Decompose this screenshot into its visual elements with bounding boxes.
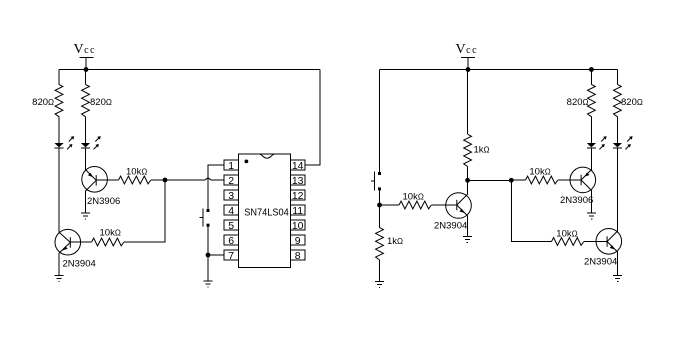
svg-text:10kΩ: 10kΩ bbox=[100, 228, 121, 239]
resistor R10 820 bbox=[588, 84, 596, 116]
resistor R8 10k bbox=[526, 176, 558, 184]
resistor R9 10k bbox=[552, 238, 584, 246]
Vcc label (left) bbox=[74, 42, 97, 57]
svg-text:10kΩ: 10kΩ bbox=[556, 229, 577, 240]
junction: switch/R6/R7 node bbox=[377, 203, 382, 208]
ground (IC switch line) bbox=[204, 281, 213, 287]
pin 5 bbox=[224, 220, 239, 232]
pin 6 bbox=[224, 235, 239, 247]
pin 1 bbox=[224, 160, 239, 172]
label R5 1k ohm bbox=[474, 145, 490, 156]
pin 7 bbox=[224, 250, 239, 262]
svg-text:1kΩ: 1kΩ bbox=[387, 236, 403, 247]
pin 11 bbox=[291, 205, 306, 217]
svg-text:820Ω: 820Ω bbox=[32, 97, 54, 108]
junction: T node bbox=[509, 178, 514, 183]
ground (Q1) bbox=[81, 213, 90, 219]
LED LED4 bbox=[613, 136, 633, 149]
wire: node to R6 bbox=[380, 204, 400, 206]
label R4 10k ohm bbox=[100, 228, 121, 239]
wire: R1 to LED1 bbox=[58, 117, 60, 143]
label R10 820 ohm bbox=[567, 97, 589, 108]
svg-text:2N3904: 2N3904 bbox=[63, 259, 96, 270]
svg-text:2N3906: 2N3906 bbox=[87, 196, 120, 207]
ground (Q5) bbox=[613, 275, 622, 281]
label R11 820 ohm bbox=[621, 97, 643, 108]
wire: R5 to Q3 collector bbox=[467, 167, 469, 195]
junction: pin 7 node bbox=[206, 253, 211, 258]
svg-text:10kΩ: 10kΩ bbox=[126, 167, 147, 178]
wire: Q5 emitter to ground bbox=[617, 252, 619, 275]
wire: R2 to LED2 bbox=[85, 117, 87, 143]
svg-text:2N3904: 2N3904 bbox=[434, 221, 467, 232]
wire: Vcc rail (right) bbox=[380, 69, 618, 71]
wire: pin 1 to switch line bbox=[208, 165, 224, 209]
label U1 SN74LS04 bbox=[244, 207, 289, 219]
label R8 10k ohm bbox=[529, 167, 550, 178]
ground (Q4) bbox=[587, 213, 596, 219]
wire: R4 to Q2 base bbox=[70, 241, 91, 243]
wire: rail corner to R11 bbox=[616, 70, 618, 85]
junction: right Vcc tap bbox=[466, 67, 471, 72]
label R6 10k ohm bbox=[403, 192, 424, 203]
transistor Q4 2N3906 bbox=[570, 167, 596, 193]
LED LED3 bbox=[587, 136, 607, 149]
label R9 10k ohm bbox=[556, 229, 577, 240]
svg-text:3: 3 bbox=[228, 190, 234, 202]
LED LED1 bbox=[54, 136, 74, 149]
wire: LED2 drop from rail bbox=[85, 70, 87, 85]
ground (R7) bbox=[375, 281, 384, 287]
svg-text:7: 7 bbox=[228, 250, 234, 262]
svg-text:9: 9 bbox=[295, 235, 301, 247]
ground (Q3) bbox=[463, 237, 472, 243]
transistor Q2 2N3904 bbox=[55, 229, 81, 255]
IC U1 body bbox=[239, 154, 291, 268]
svg-text:10kΩ: 10kΩ bbox=[403, 192, 424, 203]
svg-text:2N3904: 2N3904 bbox=[584, 257, 617, 268]
svg-text:11: 11 bbox=[292, 205, 303, 217]
svg-text:12: 12 bbox=[292, 190, 304, 202]
svg-text:1kΩ: 1kΩ bbox=[474, 145, 490, 156]
wire: LED1 to Q2 collector bbox=[58, 148, 60, 232]
wire: node to pin 7 bbox=[208, 254, 224, 256]
wire: Q2 emitter to ground bbox=[58, 253, 60, 275]
resistor R1 820 bbox=[55, 84, 63, 116]
label Q1 2N3906 bbox=[87, 196, 120, 207]
junction: rail tap for R10 bbox=[589, 67, 594, 72]
svg-text:2: 2 bbox=[228, 175, 234, 187]
pin 13 bbox=[291, 175, 306, 187]
wire: switch to node bbox=[379, 190, 381, 227]
label Q3 2N3904 bbox=[434, 221, 467, 232]
transistor Q1 2N3906 bbox=[82, 167, 108, 193]
svg-text:10kΩ: 10kΩ bbox=[529, 167, 550, 178]
svg-text:10: 10 bbox=[292, 220, 304, 232]
wire: LED2 to Q1 emitter bbox=[85, 148, 87, 170]
pin 10 bbox=[291, 220, 306, 232]
resistor R3 10k bbox=[119, 176, 151, 184]
pin 2 bbox=[224, 175, 239, 187]
resistor R7 1k bbox=[376, 228, 384, 260]
svg-text:13: 13 bbox=[292, 175, 304, 187]
svg-text:14: 14 bbox=[292, 160, 304, 172]
svg-text:820Ω: 820Ω bbox=[90, 97, 112, 108]
svg-text:8: 8 bbox=[295, 250, 301, 262]
resistor R11 820 bbox=[614, 84, 622, 116]
resistor R5 1k bbox=[464, 134, 472, 166]
wire: T node to R8 bbox=[511, 179, 525, 181]
wire: switch to pin 7 node bbox=[207, 227, 209, 281]
IC U1 notch bbox=[260, 154, 275, 158]
resistor R2 820 bbox=[82, 84, 90, 116]
wire: Vcc rail (left) bbox=[59, 69, 320, 71]
switch S2 pushbutton bbox=[371, 172, 381, 191]
wire: hop over switch line and into pin 2 bbox=[206, 178, 211, 180]
transistor Q5 2N3904 bbox=[596, 229, 622, 255]
pin 8 bbox=[291, 250, 306, 262]
pin 14 bbox=[291, 160, 306, 172]
LED LED2 bbox=[81, 136, 101, 149]
label R7 1k ohm bbox=[387, 236, 403, 247]
svg-text:2N3906: 2N3906 bbox=[560, 195, 593, 206]
label Q4 2N3906 bbox=[560, 195, 593, 206]
Vcc power symbol (left) bbox=[80, 58, 94, 70]
label Q5 2N3904 bbox=[584, 257, 617, 268]
svg-text:Vcc: Vcc bbox=[456, 42, 479, 57]
wire: Q3 emitter to ground bbox=[466, 215, 468, 236]
svg-text:1: 1 bbox=[228, 160, 234, 172]
junction: pin 2 node bbox=[163, 178, 168, 183]
wire: Q1 base lead bbox=[96, 179, 118, 181]
ground (Q2) bbox=[55, 275, 64, 281]
wire: rail to R1 bbox=[58, 70, 60, 85]
wire: node down to R4 bbox=[124, 180, 165, 242]
wire: R7 to ground bbox=[379, 260, 381, 282]
label R2 820 ohm bbox=[90, 97, 112, 108]
svg-text:820Ω: 820Ω bbox=[567, 97, 589, 108]
junction: Q3 collector node bbox=[465, 178, 470, 183]
wire: LED4 to Q5 collector bbox=[616, 148, 618, 231]
wire: rail to R5 bbox=[467, 70, 469, 135]
svg-text:4: 4 bbox=[228, 205, 234, 217]
wire: R10 to LED3 bbox=[590, 117, 592, 143]
label R3 10k ohm bbox=[126, 167, 147, 178]
svg-text:6: 6 bbox=[228, 235, 234, 247]
resistor R4 10k bbox=[92, 238, 124, 246]
wire: R8 to Q4 base bbox=[558, 179, 581, 181]
switch S1 pushbutton bbox=[200, 209, 210, 227]
svg-text:5: 5 bbox=[228, 220, 234, 232]
svg-text:820Ω: 820Ω bbox=[621, 97, 643, 108]
label Q2 2N3904 bbox=[63, 259, 96, 270]
svg-text:Vcc: Vcc bbox=[74, 42, 97, 57]
wire: R11 to LED4 bbox=[616, 117, 618, 143]
Vcc label (right) bbox=[456, 42, 479, 57]
wire: R3 to pin 2 node bbox=[151, 179, 206, 181]
wire: Q1 collector to ground bbox=[85, 191, 87, 213]
wire: collector node to T node bbox=[468, 179, 512, 181]
wire: rail drop to pin 14 bbox=[305, 70, 320, 166]
transistor Q3 2N3904 bbox=[446, 193, 472, 219]
wire: LED3 to Q4 emitter bbox=[590, 148, 592, 170]
wire: rail to switch S2 bbox=[379, 70, 381, 173]
pin 9 bbox=[291, 235, 306, 247]
IC U1 pin 1 marker dot bbox=[245, 160, 249, 164]
wire: R6 to Q3 base bbox=[431, 204, 457, 206]
wire: Q4 collector to ground bbox=[591, 190, 593, 213]
Vcc power symbol (right) bbox=[461, 58, 475, 70]
wire: rail to R10 bbox=[590, 70, 592, 85]
junction: left Vcc tap bbox=[84, 67, 89, 72]
pin 12 bbox=[291, 190, 306, 202]
pin 4 bbox=[224, 205, 239, 217]
wire: R9 to Q5 base bbox=[584, 241, 607, 243]
svg-text:SN74LS04: SN74LS04 bbox=[244, 207, 289, 219]
wire: T node down to R9 bbox=[511, 180, 551, 241]
pin 3 bbox=[224, 190, 239, 202]
label R1 820 ohm bbox=[32, 97, 54, 108]
resistor R6 10k bbox=[399, 201, 431, 209]
